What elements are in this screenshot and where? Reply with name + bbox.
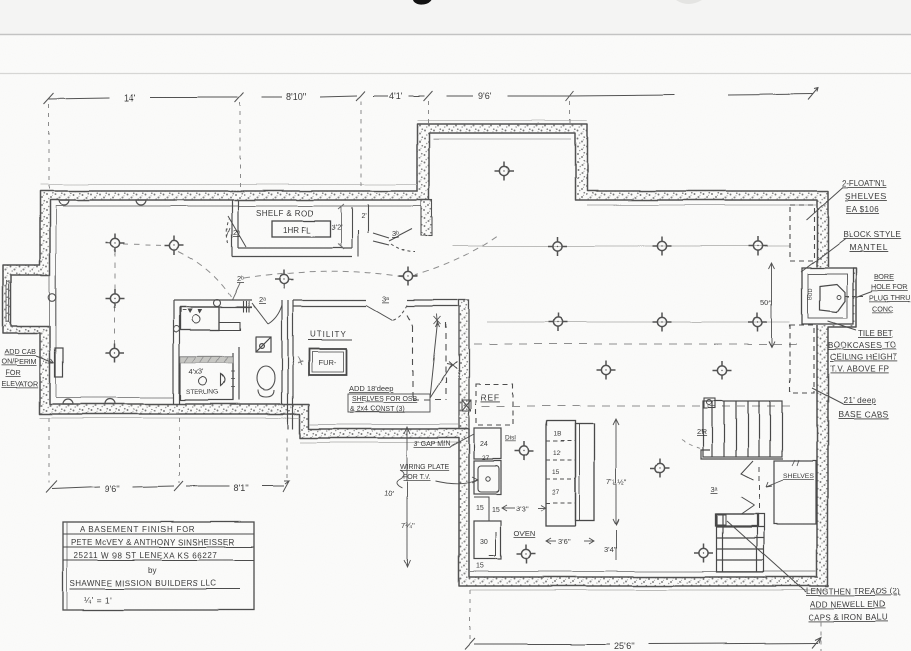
light hall 2 [399,267,418,286]
circuit dashed line 2 [482,405,796,407]
bookcase recess upper [790,205,814,261]
leader lengthen treads [727,521,806,592]
leader bore hole [856,291,872,297]
wall face lines across bump opening [49,275,51,326]
light dishwasher [515,442,534,461]
leader mantel [801,238,846,272]
stair tread extension [716,514,758,526]
sketch ghost line mid bottom [300,442,459,444]
oven door line [489,532,496,556]
title block border [63,522,254,610]
left bottom dimension line [46,481,289,493]
stair 2R arc [682,440,703,449]
light G10 [695,544,714,563]
light A1 [106,234,125,253]
bathroom fan box [256,337,271,352]
bathroom hinge marks [243,301,249,312]
top dimension line [44,88,818,104]
dim 3-6 [546,538,594,544]
bathroom left wall [173,300,179,404]
cabinet 27 with plate [474,461,501,494]
light A3 [106,290,125,309]
firebox vent dashes [845,295,865,297]
wall inner face line top [56,205,421,207]
bathroom top wall [173,300,252,307]
cabinet 30 [474,521,501,559]
great room light row line 1 [452,245,790,247]
logo letter fragment [413,0,432,5]
sketch ghost line bottom [470,589,828,591]
sconce bathroom left wall [173,326,179,332]
vanity counter step [180,322,240,330]
circuit dashed line 1 [474,343,800,345]
wall face line raised [433,138,571,140]
light G8 [713,361,732,380]
header gray band [0,0,911,34]
sketch ghost line raised top [417,120,587,122]
leader 3 gap [450,434,474,447]
light hall 1 [275,270,294,289]
leader floating shelves [806,187,843,220]
closet bottom wall [232,248,352,257]
circuit arc hall [244,271,404,278]
faint circle fragment [676,0,702,4]
bathroom utility shared wall [282,300,293,429]
sketch ghost line top [40,184,417,186]
furnace tick mark [298,357,303,365]
light G9 [651,459,670,478]
leader wiring plate [436,480,477,484]
refrigerator dashed box [476,384,513,425]
header band bottom border [0,34,911,36]
stairs lower run [717,514,764,572]
sconce bottom 2 [105,399,115,404]
shower wall [233,347,239,400]
dim 3-4 [615,530,617,560]
cabinet 15 outline [474,497,489,521]
dimension 3'2 closet [338,204,344,249]
leader base cabs [812,388,843,404]
vanity faucet marks [187,309,202,314]
door 2D closet [227,216,246,247]
light oven [517,545,536,564]
title block rules [63,534,254,589]
wall face line kitchen bottom [470,571,816,573]
shelves closet under stairs [774,461,816,524]
left bottom extension dashed [49,418,287,483]
island cabinet block [546,421,575,526]
light G3 [749,237,768,256]
utility door 3A [366,305,407,320]
light G7 [597,361,616,380]
top extension dashed lines [49,101,570,190]
closet right wall stub [421,200,432,236]
fireplace inner surround [808,274,847,318]
wall inner face line left [55,206,57,397]
note leader arrows [430,322,452,398]
switch leader 2B [232,283,240,300]
circuit arc A2-bath [178,251,231,297]
bottom extension dashed [470,590,821,651]
light A4 [106,344,125,363]
vanity sink [192,315,200,323]
firebox circle [837,295,841,299]
island counter [575,424,594,521]
landing door lines [741,461,754,514]
leader tile [828,321,856,330]
stairs upper run [703,401,782,457]
light G1 [549,237,568,256]
light G2 [653,237,672,256]
light G4 [549,313,568,332]
light A2 [165,236,184,255]
great room light row line 2 [487,321,790,323]
utility top wall [293,300,458,306]
dim 50 inch [769,263,775,347]
kitchen west wall [459,300,469,429]
sconce bathroom top wall [214,300,221,307]
closet jog wall [352,204,389,257]
junction X box [462,400,471,411]
bathroom door 2A [252,303,282,324]
shower door [221,374,225,386]
wall face line left bottom [56,397,173,399]
sconce top 1 [59,200,69,205]
door 3B swing [389,229,415,252]
stair newel [704,398,715,408]
island dividers [546,441,575,503]
bottom dimension line [465,637,821,649]
furnace box [309,349,346,375]
circuit arc raised [412,236,497,276]
circuit arc A1-A3 [114,252,116,292]
fireplace surround [802,268,853,324]
dim 10 step [396,427,410,567]
circuit arc A1-A2 [123,244,164,245]
closet box 1HR FL [272,221,330,237]
horizontal rule line [0,73,911,75]
cabinet 24 [474,428,501,459]
tv wiring plate [478,466,499,492]
bookcase recess lower [790,325,814,393]
leader add cab [36,356,54,363]
closet left wall [232,200,238,257]
dim 7-1-half vertical [613,419,619,525]
shelves dashed recess [407,315,446,400]
cab rect on wall [55,348,63,377]
sconce top 2 [136,200,146,205]
shower drain [199,377,207,385]
shelf X mark upper [434,314,441,325]
shelf X mark lower [449,361,457,368]
wall face line mid bottom [310,424,458,426]
fireplace clearing [801,267,853,325]
sconce bottom 1 [63,399,73,404]
sketch ghost line left bottom [40,417,300,419]
wall face line top-right [587,204,816,206]
stair wall bracket [701,450,783,459]
outlet circle left wall [48,293,56,301]
landing dashed line [758,467,760,510]
shower stall 4x3 [180,357,233,400]
light G5 [653,313,672,332]
outer concrete wall with stipple [3,124,856,586]
window lines in bump-out [7,280,10,322]
shower curb hatch [180,357,233,363]
toilet [257,366,275,397]
circuit arc A3-A4 [114,307,116,345]
light G6 [749,313,768,332]
light raised [495,162,514,181]
firebox hexagon [820,284,845,312]
vanity [180,307,219,330]
